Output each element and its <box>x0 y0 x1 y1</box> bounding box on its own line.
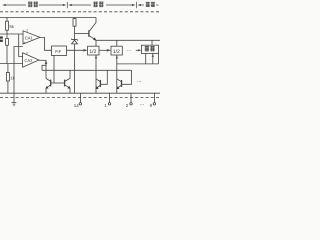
Qc base loop <box>100 70 107 84</box>
label divider (CJK glyphs) <box>93 2 98 7</box>
svg-text:F.F: F.F <box>55 49 61 54</box>
transistor Qd <box>121 80 123 87</box>
op-amp CA1 <box>23 31 40 44</box>
svg-text:14: 14 <box>74 103 79 108</box>
wire CA1 output to F.F <box>40 37 52 50</box>
mid rail (divider base line) <box>42 69 132 71</box>
divider span line <box>71 4 92 6</box>
right arrowhead toward tick1 <box>63 4 67 6</box>
left arrowhead <box>2 4 6 6</box>
svg-text:⋯: ⋯ <box>127 48 132 53</box>
arrowhead toward tick2 <box>132 4 136 6</box>
node line A (CA1 + input) <box>0 33 23 35</box>
divider box 1 (1/2) <box>88 46 99 55</box>
ground stem <box>13 93 15 102</box>
zener diode D1 <box>74 34 76 40</box>
transistor Qa (mirrored) <box>50 80 52 87</box>
svg-text:CA1: CA1 <box>25 35 34 40</box>
arrowhead up at CA2 out node <box>45 60 48 64</box>
transistor Qd trunk with arrow into box2 bottom <box>116 55 118 93</box>
wire bias to Q1 base <box>75 33 89 35</box>
svg-text:⋯: ⋯ <box>140 102 145 108</box>
arrowhead right of tick1 <box>68 4 72 6</box>
IC boundary dashed top <box>0 11 160 13</box>
section tick 2 <box>136 2 138 8</box>
svg-text:⋯: ⋯ <box>137 79 142 84</box>
op-amp CA2 <box>23 53 39 68</box>
wire x18.7 cross-couple <box>19 34 23 57</box>
Qd base loop <box>122 70 132 84</box>
riser control box bottom right <box>157 54 159 64</box>
section arrow row: oscillator span <box>5 4 26 6</box>
control box <box>142 45 159 53</box>
label control (CJK glyphs) <box>146 2 150 7</box>
svg-text:CA2: CA2 <box>24 58 33 63</box>
wire rail to divider box 2 <box>116 40 118 46</box>
terminal 14 <box>79 93 81 102</box>
transistor Qc trunk with arrow into box1 bottom <box>95 55 97 93</box>
wire CA2 output <box>39 59 46 61</box>
resistor R1 5k <box>6 18 8 22</box>
arrowhead right of tick2 <box>137 4 141 6</box>
wire CA1 lower input / ground branch <box>14 47 23 94</box>
transistor Q1 <box>88 30 90 37</box>
arrow into control box <box>136 49 140 51</box>
arrow box1 to box2 <box>99 49 110 51</box>
riser with arrow into control box bottom <box>152 54 154 64</box>
arrow F.F to box1 <box>67 49 87 51</box>
svg-text:1/2: 1/2 <box>113 49 120 55</box>
resistor R2 <box>6 34 8 39</box>
flip-flop box F.F <box>52 46 67 56</box>
resistor Rb (bias) <box>74 18 76 19</box>
base line of left pair <box>51 82 65 84</box>
section tick 1 <box>66 2 68 8</box>
VDD top rail <box>0 17 96 19</box>
svg-text:1/2: 1/2 <box>89 49 96 55</box>
control span line <box>140 4 144 6</box>
VDD2 right rail <box>96 39 160 41</box>
wire rail to control box <box>151 40 153 45</box>
transistor Qb <box>64 80 66 87</box>
transistor Qc <box>99 80 101 87</box>
resistor R3 <box>7 64 9 73</box>
wire jog to mid rail <box>42 60 46 70</box>
wire F.F bottom to base line <box>53 56 55 84</box>
wire rail to divider box 1 <box>95 40 97 46</box>
divider box 2 (1/2) <box>111 46 122 55</box>
crystal (edge, external) <box>0 36 3 41</box>
control feed line from divider <box>117 63 159 65</box>
terminal 9 <box>153 93 155 102</box>
label oscillator (CJK glyphs) <box>28 2 33 7</box>
VSS bottom rail <box>0 92 160 94</box>
riser to control box bottom left <box>145 54 147 64</box>
terminal 1 <box>109 93 111 102</box>
terminal 2 <box>130 93 132 102</box>
ground symbol <box>12 101 17 103</box>
node line B (CA2 - input) <box>0 63 23 65</box>
IC boundary dashed bottom <box>0 97 160 99</box>
